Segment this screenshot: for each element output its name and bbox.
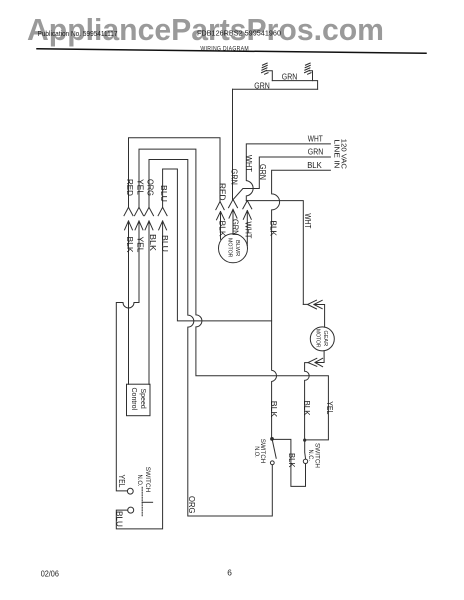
svg-text:GRN: GRN (230, 169, 239, 185)
svg-text:WHT: WHT (244, 222, 253, 239)
svg-text:WHT: WHT (308, 134, 323, 143)
connector fork motor WHT (243, 201, 252, 209)
svg-text:BLWR: BLWR (234, 240, 240, 256)
connector arrow left 3 (145, 221, 153, 384)
svg-text:BLK: BLK (307, 161, 322, 170)
wire GRN top bus (233, 88, 318, 90)
gear motor connector top (303, 300, 316, 309)
svg-text:BLK: BLK (125, 237, 134, 254)
harness loop 3 ORG (149, 160, 272, 517)
harness loop 1 RED (129, 138, 221, 208)
svg-text:SWITCH: SWITCH (144, 467, 151, 493)
connector fork left 4 (158, 207, 167, 215)
svg-text:GRN: GRN (230, 219, 239, 236)
gear motor connector bottom (315, 351, 324, 367)
harness loop 2 YEL (139, 149, 328, 440)
svg-text:N.O.: N.O. (136, 475, 143, 487)
svg-text:02/06: 02/06 (41, 568, 60, 578)
connector fork motor GRN (229, 199, 238, 207)
svg-text:GRN: GRN (282, 73, 298, 82)
wire G1 stem (266, 71, 272, 81)
svg-text:6: 6 (227, 568, 232, 578)
connector fork left 2 (135, 207, 144, 215)
ground G1 (262, 63, 268, 74)
svg-text:Control: Control (130, 388, 137, 411)
svg-text:BLK: BLK (269, 221, 278, 237)
svg-text:120 VAC: 120 VAC (339, 139, 346, 169)
svg-text:Speed: Speed (139, 389, 146, 409)
svg-text:LINE IN: LINE IN (332, 140, 339, 169)
svg-text:YEL: YEL (136, 237, 145, 254)
harness loop 4 BLU (163, 169, 272, 321)
svg-text:BLU: BLU (115, 511, 124, 527)
switch NC terminal (303, 459, 307, 463)
svg-text:BLU: BLU (160, 235, 169, 252)
svg-text:WHT: WHT (303, 213, 312, 228)
svg-text:ORG: ORG (187, 496, 196, 514)
switch NO2 blade (272, 441, 276, 459)
svg-text:BLK: BLK (302, 401, 311, 417)
svg-text:WIRING DIAGRAM: WIRING DIAGRAM (200, 45, 249, 52)
switch NC blade (304, 442, 307, 459)
wire G2 stem (309, 71, 312, 81)
svg-text:Publication No. 5995411117: Publication No. 5995411117 (38, 29, 118, 38)
wire GRN main vertical (232, 89, 234, 199)
connector fork left 1 (124, 207, 133, 215)
blower motor circle (219, 234, 248, 263)
svg-text:BLK: BLK (269, 401, 278, 418)
connector arrow motor WHT (243, 211, 251, 246)
svg-text:YEL: YEL (117, 475, 126, 488)
svg-text:WHT: WHT (244, 155, 253, 172)
svg-text:RED: RED (217, 183, 226, 201)
gear motor circle (310, 327, 334, 351)
svg-text:GRN: GRN (254, 82, 270, 91)
svg-text:MOTOR: MOTOR (227, 238, 233, 258)
switch NO2 bottom terminal (270, 461, 274, 465)
junction dot YEL/BLK (303, 439, 306, 442)
svg-text:ORG: ORG (146, 179, 155, 196)
svg-text:FDB126RBS2 599541960: FDB126RBS2 599541960 (197, 29, 281, 38)
wire WHT line-in (246, 144, 330, 201)
svg-text:GRN: GRN (308, 148, 324, 157)
svg-text:GEAR: GEAR (322, 331, 328, 347)
connector fork motor RED (216, 202, 224, 210)
connector arrow left 2 / wire YEL down (116, 221, 143, 491)
connector fork left 3 (145, 207, 154, 215)
svg-text:BLK: BLK (287, 453, 296, 468)
svg-text:YEL: YEL (325, 401, 334, 414)
wire WHT to gear motor (246, 201, 303, 305)
svg-text:BLK: BLK (148, 234, 157, 252)
left switch blade tick (142, 501, 152, 503)
svg-text:BLU: BLU (159, 185, 168, 202)
svg-text:RED: RED (125, 179, 134, 196)
connector arrow motor BLK (217, 212, 225, 240)
svg-text:YEL: YEL (136, 179, 145, 196)
connector arrow motor GRN (229, 209, 237, 233)
connector arrow left 4 / wire BLU down (116, 221, 166, 529)
wire ground bus (272, 81, 317, 90)
connector arrow left 1 (125, 221, 133, 384)
left switch terminal 1 (127, 488, 133, 494)
ground G2 (305, 63, 311, 74)
left switch blade dotted (141, 487, 143, 516)
wire GRN line-in (233, 157, 330, 199)
svg-text:BLK: BLK (218, 221, 227, 238)
speed control box (127, 384, 151, 416)
wire NC to NO link (274, 439, 306, 486)
header rule (37, 49, 426, 54)
left switch terminal 2 (128, 507, 134, 513)
wire BLK line-in (272, 170, 331, 437)
svg-text:GRN: GRN (258, 164, 267, 180)
svg-text:MOTOR: MOTOR (315, 329, 321, 348)
svg-text:N.O.: N.O. (253, 446, 260, 458)
switch NO2 top terminal dot (271, 438, 274, 441)
svg-text:N.C.: N.C. (307, 450, 314, 462)
